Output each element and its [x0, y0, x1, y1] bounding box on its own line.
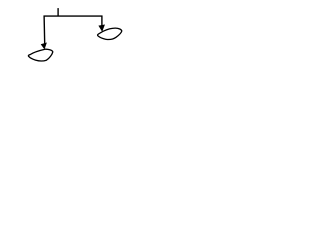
node: left ellipse (hand-drawn) [28, 49, 52, 61]
node: right ellipse (hand-drawn) [98, 28, 122, 39]
wire: top stub [57, 8, 59, 16]
wire: left drop [43, 16, 46, 45]
wire: horizontal bar [44, 15, 103, 17]
wire: right drop [101, 16, 103, 26]
arrowhead left [41, 43, 46, 49]
arrowhead right [99, 25, 105, 31]
